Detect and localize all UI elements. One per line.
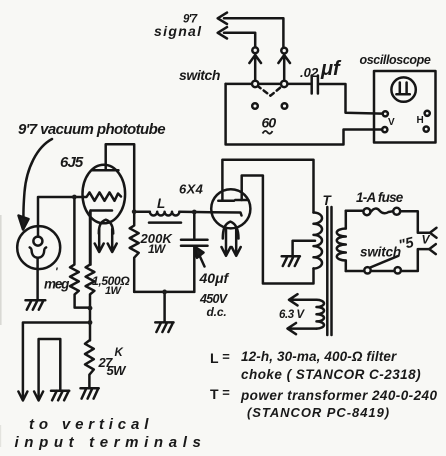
svg-text:(STANCOR PC-8419): (STANCOR PC-8419) — [247, 405, 390, 420]
svg-text:K: K — [115, 347, 124, 359]
svg-text:V: V — [422, 233, 431, 247]
svg-text:=: = — [222, 385, 230, 400]
svg-text:μf: μf — [320, 58, 342, 80]
svg-text:40μf: 40μf — [199, 270, 230, 286]
svg-text:oscilloscope: oscilloscope — [360, 53, 431, 67]
svg-text:T: T — [210, 386, 219, 402]
svg-text:switch: switch — [360, 245, 401, 260]
svg-text:12-h, 30-ma, 400-Ω filter: 12-h, 30-ma, 400-Ω filter — [241, 349, 397, 364]
svg-text:6J5: 6J5 — [60, 154, 84, 171]
svg-text:6.3 V: 6.3 V — [279, 309, 305, 321]
svg-text:V: V — [388, 117, 395, 128]
svg-text:d.c.: d.c. — [207, 305, 227, 319]
svg-text:1W: 1W — [105, 285, 123, 297]
svg-text:H: H — [417, 115, 424, 126]
svg-text:choke ( STANCOR C-2318): choke ( STANCOR C-2318) — [241, 367, 421, 382]
svg-text:1W: 1W — [148, 242, 167, 256]
svg-text:1-A fuse: 1-A fuse — [356, 190, 404, 205]
svg-text:power transformer 240-0-240: power transformer 240-0-240 — [240, 388, 438, 403]
svg-text:signal: signal — [154, 23, 202, 39]
svg-text:input terminals: input terminals — [15, 434, 207, 451]
svg-text:5W: 5W — [107, 363, 128, 378]
svg-text:meg: meg — [44, 277, 70, 292]
svg-text:=: = — [222, 349, 230, 364]
svg-text:L: L — [157, 196, 165, 211]
svg-text:6X4: 6X4 — [179, 182, 204, 197]
svg-text:60: 60 — [262, 115, 277, 131]
svg-text:L: L — [210, 350, 219, 366]
svg-text:450V: 450V — [199, 292, 229, 306]
svg-text:T: T — [323, 193, 333, 208]
svg-text:switch: switch — [179, 67, 220, 83]
svg-text:9'7 vacuum phototube: 9'7 vacuum phototube — [18, 121, 165, 138]
svg-text:to vertical: to vertical — [29, 416, 153, 433]
svg-text:.02: .02 — [300, 65, 319, 80]
